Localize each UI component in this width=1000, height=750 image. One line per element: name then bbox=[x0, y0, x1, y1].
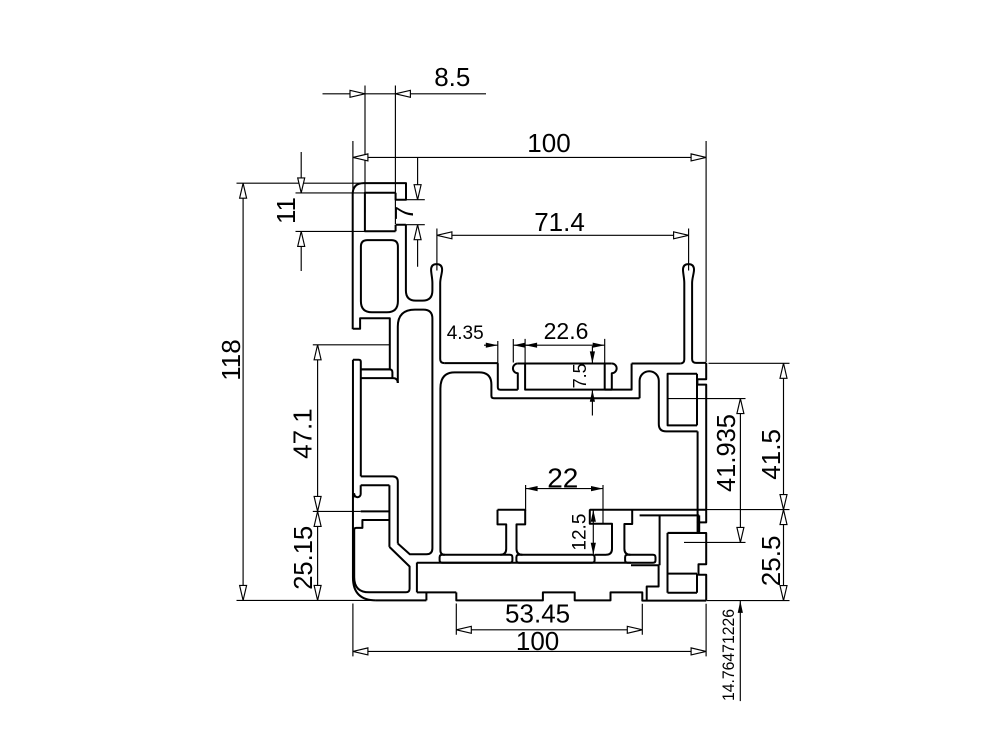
right stem with bulb bbox=[680, 264, 706, 363]
dim 7.5 lines bbox=[591, 346, 593, 416]
slot hole 22.6 x 7.5 closed rectangle bbox=[525, 364, 612, 390]
dim 53.45 line and extensions bbox=[456, 604, 642, 635]
slab underside and Z-step into pentagon cavity bbox=[354, 520, 409, 592]
arrows 7.5 bbox=[590, 351, 595, 363]
dim 25.15 line and extension bbox=[313, 511, 361, 600]
svg-text:7: 7 bbox=[389, 206, 419, 220]
dim 41.935 line and extensions bbox=[668, 399, 746, 543]
dim 12.5 line bbox=[589, 510, 599, 555]
right module interior middle slots bbox=[668, 515, 700, 592]
arrows 71.4 bbox=[437, 232, 452, 239]
svg-text:7.5: 7.5 bbox=[570, 363, 590, 388]
omega screw channel bbox=[640, 371, 698, 431]
fin tab with rounded right end and stub into cavity C2 wall bbox=[361, 369, 398, 383]
arrows 53.45 bbox=[456, 626, 471, 633]
bottom edge with feet notches bbox=[376, 592, 706, 600]
channel floor top middle (over slot hole) bbox=[518, 363, 612, 365]
svg-text:53.45: 53.45 bbox=[505, 598, 570, 628]
svg-text:22: 22 bbox=[547, 462, 578, 493]
ledge line y=509.8 left T-head bbox=[498, 509, 526, 511]
dim 100 bottom line and extensions bbox=[353, 604, 706, 657]
arrows 47.1 bbox=[314, 345, 321, 360]
svg-text:25.15: 25.15 bbox=[288, 526, 318, 590]
channel floor top right part bbox=[632, 363, 681, 365]
svg-text:41.935: 41.935 bbox=[711, 414, 741, 492]
right module outer right edge with notches bbox=[697, 363, 706, 601]
pocket P1 left wall and bottom bbox=[498, 363, 518, 390]
T-pillar 2 with head merged to module shelf bbox=[590, 510, 632, 555]
dim 22.6 line and extensions bbox=[525, 339, 605, 364]
dim 41.5 line and extensions bbox=[706, 363, 789, 509]
slab top edge y=511.4 bbox=[361, 510, 390, 512]
arrows 4.35 bbox=[486, 343, 498, 348]
arrows 12.5 bbox=[591, 510, 596, 522]
arrows 118 bbox=[240, 183, 247, 198]
dim 14.76471226 line bbox=[739, 601, 741, 701]
right module inner upper cavity bbox=[668, 374, 697, 426]
svg-text:25.5: 25.5 bbox=[756, 536, 786, 587]
slab top left of hole1 bbox=[417, 562, 631, 564]
top-left module: outer contour with side-opening slot mouth bbox=[353, 183, 406, 329]
dim 118 line and extensions bbox=[237, 183, 371, 600]
floor segment between holes 2 and 3 bbox=[595, 554, 606, 556]
cavity C2 tall rounded hole with bottom-left chamfer (left face interrupted) bbox=[398, 310, 433, 555]
svg-text:14.76471226: 14.76471226 bbox=[719, 609, 738, 701]
arrows 7 bbox=[414, 185, 421, 200]
dim 100 top line and extensions bbox=[353, 141, 706, 362]
svg-text:100: 100 bbox=[516, 626, 559, 656]
arrows 41.935 bbox=[737, 399, 744, 414]
svg-text:118: 118 bbox=[216, 339, 246, 380]
svg-text:47.1: 47.1 bbox=[288, 408, 318, 459]
dim 4.35 arrow-body lines and extension bbox=[484, 339, 528, 363]
svg-text:11: 11 bbox=[271, 197, 301, 224]
slot S2 up-opening between walls bbox=[406, 225, 433, 301]
dim 7 line and extensions bbox=[406, 157, 425, 266]
arrows 100 bottom bbox=[353, 648, 368, 655]
svg-text:22.6: 22.6 bbox=[544, 318, 589, 344]
arrows 25.15 bbox=[314, 511, 321, 526]
wall re-entry cap at y=359.7 bbox=[353, 360, 361, 477]
bottom-left module right face bbox=[417, 563, 456, 601]
svg-text:8.5: 8.5 bbox=[434, 62, 470, 92]
right module inner wall below bbox=[697, 431, 699, 522]
floor underside shelf with arcs bbox=[440, 372, 639, 398]
arrows 11 bbox=[298, 178, 305, 193]
band slot top edge with fillet into cavity C2 left wall bbox=[361, 476, 398, 543]
central wall outer face bbox=[440, 389, 444, 555]
fin lip with rounded tip bbox=[354, 485, 360, 497]
channel floor top surface left part bbox=[444, 362, 498, 364]
dim 22 line and extensions bbox=[526, 485, 603, 524]
dim 8.5 line and extensions bbox=[323, 86, 487, 225]
arrows 22.6 bbox=[525, 343, 537, 348]
dim 25.5 line and extension bbox=[707, 510, 790, 601]
screw bump B2 (right semicircle) and wall bbox=[605, 364, 632, 390]
svg-text:4.35: 4.35 bbox=[447, 323, 484, 344]
svg-text:12.5: 12.5 bbox=[570, 514, 591, 551]
T-pillar 1 bbox=[498, 510, 526, 555]
svg-text:41.5: 41.5 bbox=[756, 429, 786, 480]
left stem with bulb bbox=[431, 264, 444, 363]
dim 11 line and extensions bbox=[296, 152, 365, 271]
cavity C1 rounded hole bbox=[361, 240, 398, 312]
dim 47.1 line and extension bbox=[313, 345, 390, 512]
arrows 100 top bbox=[353, 154, 368, 161]
step shelf and foot staircase bottom right bbox=[631, 565, 659, 600]
slab holes under floor bbox=[440, 555, 513, 563]
arrows 25.5 bbox=[780, 510, 787, 525]
wall notch at left outer face y=328.7 and upper slot box bbox=[353, 318, 390, 369]
arrows 41.5 bbox=[780, 363, 787, 378]
arrows 22 bbox=[526, 486, 538, 491]
svg-text:71.4: 71.4 bbox=[534, 207, 585, 237]
top-left closed hole (8.5 x 11) bbox=[365, 193, 396, 232]
screw bump B1 (left semicircle) and its wall bbox=[513, 364, 518, 390]
band slot bottom edge bbox=[361, 485, 390, 547]
arrows 8.5 bbox=[350, 90, 365, 97]
ledge continues through right module bbox=[590, 510, 706, 566]
svg-text:100: 100 bbox=[527, 128, 570, 158]
arrow 14.76471226 bbox=[738, 601, 743, 613]
dim 71.4 line and extensions bbox=[437, 229, 689, 271]
left wall outer face down to bottom corner fillet bbox=[353, 360, 376, 601]
